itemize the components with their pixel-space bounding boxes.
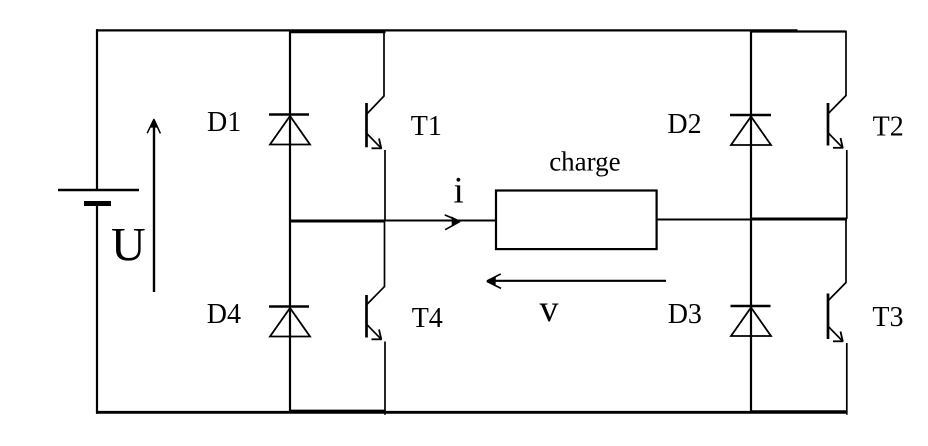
arrow: voltage v (left) (486, 274, 666, 289)
wire: bottom rail (- bus) (96, 411, 847, 414)
wire: left midpoint node bus (thick) (290, 220, 385, 223)
svg-text:T2: T2 (873, 111, 904, 142)
svg-text:D3: D3 (668, 299, 702, 330)
svg-text:i: i (454, 171, 464, 212)
diode D2 (730, 115, 771, 145)
wire: left vertical from battery to bottom rail (96, 204, 98, 414)
transistor T3 (828, 219, 847, 415)
transistor T4 (367, 221, 386, 415)
wire: right leg bottom connector (750, 410, 847, 412)
transistor T1 (367, 31, 386, 221)
wire: left leg top connector (289, 31, 386, 33)
wire: right leg diode column (750, 30, 752, 412)
wire: left leg diode column (289, 30, 291, 412)
load box (charge) (496, 191, 657, 250)
svg-text:T3: T3 (872, 302, 903, 333)
svg-text:U: U (111, 218, 146, 271)
svg-text:charge: charge (549, 146, 620, 176)
wire: left leg bottom connector (289, 410, 386, 412)
diode D3 (731, 306, 772, 336)
diode D1 (269, 115, 310, 145)
arrow: U voltage reference (up) (147, 118, 160, 292)
svg-text:T4: T4 (412, 303, 443, 334)
transistor T2 (828, 31, 847, 219)
battery U (DC source) (58, 190, 139, 204)
wire: right midpoint node bus (thick) (751, 218, 847, 221)
arrow: current i (right) (445, 215, 460, 221)
diode D4 (269, 307, 310, 337)
svg-text:D2: D2 (667, 109, 701, 140)
svg-text:v: v (540, 288, 559, 330)
wire: midpoint to load with current arrow (385, 220, 497, 222)
wire: top rail (+ bus) (96, 29, 798, 31)
wire: load to right leg midpoint (657, 219, 751, 221)
svg-text:D4: D4 (207, 299, 241, 330)
wire: right leg top connector (750, 30, 847, 32)
svg-text:D1: D1 (207, 107, 241, 138)
svg-text:T1: T1 (411, 111, 442, 142)
wire: left vertical from top rail to battery (96, 29, 98, 190)
